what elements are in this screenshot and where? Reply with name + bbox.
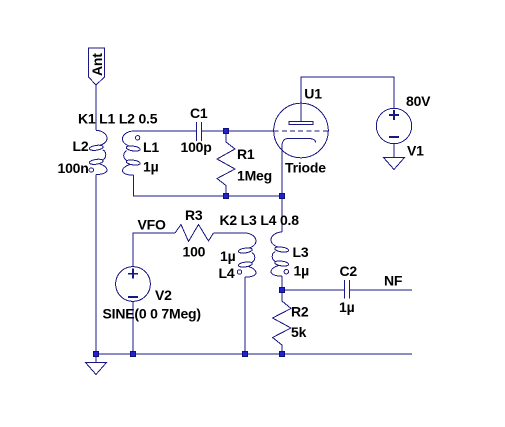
svg-text:100n: 100n (58, 160, 89, 176)
svg-text:V2: V2 (155, 287, 172, 303)
svg-text:C2: C2 (340, 263, 358, 279)
svg-text:R2: R2 (291, 304, 309, 320)
svg-text:R1: R1 (237, 146, 255, 162)
svg-text:Triode: Triode (285, 160, 326, 176)
svg-text:1µ: 1µ (143, 158, 159, 174)
svg-text:U1: U1 (304, 86, 322, 102)
svg-text:C1: C1 (190, 105, 208, 121)
svg-text:Ant: Ant (89, 53, 105, 76)
svg-text:L2: L2 (73, 138, 89, 154)
svg-text:K2 L3 L4 0.8: K2 L3 L4 0.8 (220, 212, 300, 228)
svg-text:V1: V1 (407, 142, 424, 158)
svg-text:VFO: VFO (138, 217, 166, 233)
svg-text:SINE(0 0 7Meg): SINE(0 0 7Meg) (103, 305, 201, 321)
svg-text:1µ: 1µ (339, 299, 355, 315)
svg-text:K1 L1 L2 0.5: K1 L1 L2 0.5 (78, 111, 158, 127)
svg-text:100p: 100p (181, 139, 212, 155)
svg-text:L4: L4 (219, 265, 235, 281)
svg-text:L3: L3 (293, 244, 309, 260)
svg-text:L1: L1 (143, 139, 159, 155)
svg-text:5k: 5k (291, 324, 307, 340)
svg-text:1µ: 1µ (294, 262, 310, 278)
svg-text:80V: 80V (406, 93, 431, 109)
svg-text:1µ: 1µ (220, 248, 236, 264)
svg-text:NF: NF (384, 273, 403, 289)
svg-text:1Meg: 1Meg (237, 168, 272, 184)
svg-text:100: 100 (183, 244, 206, 260)
svg-text:R3: R3 (185, 207, 203, 223)
